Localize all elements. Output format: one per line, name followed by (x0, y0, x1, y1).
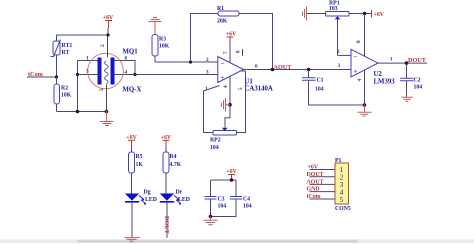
junction C1 (307, 68, 311, 72)
wire top rail (57, 34, 109, 36)
ground (under C2) (401, 97, 413, 101)
potentiometer RP2 (204, 71, 246, 151)
svg-text:C1: C1 (317, 78, 324, 84)
svg-text:2: 2 (100, 44, 106, 47)
ground (above R3, flipped) (149, 18, 162, 35)
resistor R5 (129, 152, 144, 194)
svg-text:5: 5 (238, 87, 244, 90)
svg-text:5: 5 (340, 195, 344, 204)
wire P1 pin4, net GND (307, 187, 336, 193)
pin 5 stub U1 (241, 70, 246, 72)
svg-text:+: + (354, 68, 358, 76)
svg-text:4: 4 (357, 79, 363, 82)
svg-text:6: 6 (125, 56, 128, 62)
svg-text:−: − (221, 60, 225, 68)
pin 8 wire U2 (356, 14, 365, 57)
svg-text:4: 4 (125, 70, 128, 76)
sensor MQ1 (86, 35, 141, 112)
power +6V (right of RP1) (372, 10, 385, 18)
capacitor C2 (400, 63, 422, 97)
pin 1 stub U1 (204, 86, 220, 133)
svg-text:LED: LED (178, 197, 190, 203)
wire R3 to U1 pin2 (155, 61, 218, 63)
svg-text:1: 1 (86, 56, 89, 62)
junction (405, 61, 409, 65)
svg-text:R3: R3 (159, 37, 166, 43)
wire U1 output (244, 69, 352, 71)
svg-text:2: 2 (337, 49, 340, 55)
wire bottom rail (57, 111, 107, 113)
ground (under Dg) (124, 238, 140, 242)
wire P1 pin1, net +6V (308, 165, 336, 171)
wire pin4 (115, 74, 136, 76)
LED Dg (125, 190, 157, 206)
svg-text:C4: C4 (243, 197, 250, 203)
junction (228, 103, 232, 107)
svg-text:Dg: Dg (144, 190, 151, 196)
junction (76, 73, 79, 76)
svg-text:LM393: LM393 (374, 79, 396, 86)
wire P1 pin2, net DOUT (307, 172, 336, 178)
resistor R2 (54, 77, 72, 112)
wire LED Dg to ground (131, 203, 133, 238)
svg-text:DOUT: DOUT (163, 216, 170, 235)
svg-text:CA3140A: CA3140A (245, 86, 273, 93)
svg-text:+6V: +6V (374, 12, 385, 18)
svg-text:1K: 1K (136, 162, 144, 168)
svg-text:4: 4 (223, 85, 229, 88)
svg-text:RP2: RP2 (210, 138, 221, 144)
thermistor RT1 (51, 35, 73, 77)
resistor R1 feedback (191, 6, 273, 70)
potentiometer RP1 (307, 1, 372, 56)
svg-text:DOUT: DOUT (408, 57, 427, 64)
power +6V (above R4) (161, 135, 172, 152)
junction (133, 73, 136, 76)
junction (76, 110, 80, 114)
svg-text:7: 7 (223, 51, 229, 54)
wire pin1 (78, 60, 98, 62)
wire U2 output DOUT (378, 62, 427, 64)
wire U2 pin2 (338, 54, 352, 56)
svg-text:5: 5 (99, 88, 105, 91)
svg-text:8: 8 (236, 50, 242, 53)
power +6V (U1 pin7) (226, 32, 237, 49)
resistor R3 (152, 35, 170, 63)
svg-text:MQ-X: MQ-X (123, 87, 142, 94)
svg-text:tCom: tCom (307, 194, 321, 200)
svg-text:+6V: +6V (308, 165, 319, 171)
wire LED Dr down, net DOUT (163, 203, 170, 238)
svg-text:RT1: RT1 (62, 43, 73, 49)
svg-text:C2: C2 (414, 78, 421, 84)
svg-text:3: 3 (206, 70, 209, 76)
junction (363, 103, 367, 107)
junction (189, 60, 192, 63)
bottom scrollbar band (0, 240, 474, 244)
op-amp U2 (351, 49, 395, 85)
svg-text:104: 104 (315, 87, 324, 93)
resistor R4 (163, 152, 182, 194)
wire P1 pin3, net AOUT (307, 179, 336, 185)
svg-text:LED: LED (145, 197, 157, 203)
svg-text:20K: 20K (217, 19, 228, 25)
connector P1 CON5 (335, 158, 351, 212)
svg-text:R5: R5 (136, 154, 143, 160)
svg-text:1: 1 (390, 57, 393, 63)
ground (left of RP1, rotated) (303, 7, 307, 21)
svg-text:1: 1 (205, 86, 208, 92)
svg-text:3: 3 (86, 69, 89, 75)
pin 4 wire U1 (223, 76, 230, 127)
wire sensor left pins vertical (77, 61, 79, 112)
svg-text:+: + (221, 74, 225, 82)
op-amp U1 (206, 57, 273, 93)
wire C3 C4 top rail (211, 180, 237, 197)
capacitor C4 (211, 197, 252, 217)
svg-text:10K: 10K (159, 44, 170, 50)
svg-text:GND: GND (307, 187, 320, 193)
ground (under U2 pin4) (358, 105, 372, 116)
svg-text:R4: R4 (170, 154, 177, 160)
svg-text:2: 2 (206, 57, 209, 63)
power +6V (above C3 C4) (226, 169, 237, 180)
capacitor C1 (302, 70, 365, 106)
junction (105, 110, 109, 114)
svg-text:Dr: Dr (176, 190, 183, 196)
node tCom (27, 71, 58, 79)
svg-text:CON5: CON5 (335, 206, 351, 212)
junction (230, 178, 234, 182)
svg-text:RT: RT (62, 50, 70, 56)
svg-text:AOUT: AOUT (274, 64, 293, 71)
svg-text:AOUT: AOUT (307, 179, 324, 185)
svg-text:10K: 10K (61, 93, 72, 99)
power +6V (top left) (103, 15, 114, 35)
svg-text:R1: R1 (217, 6, 224, 12)
svg-text:104: 104 (243, 204, 252, 210)
svg-text:MQ1: MQ1 (123, 49, 139, 56)
pin 8 stub U1 (236, 49, 243, 56)
svg-text:3: 3 (338, 63, 341, 69)
junction top (106, 33, 109, 36)
svg-text:104: 104 (210, 145, 219, 151)
svg-text:U2: U2 (374, 71, 383, 78)
capacitor C3 (205, 197, 227, 217)
ground (under C3) (204, 217, 218, 225)
junction (363, 12, 367, 16)
svg-text:−: − (354, 53, 358, 61)
ground (below MQ1) (100, 112, 114, 126)
svg-text:DOUT: DOUT (307, 172, 324, 178)
svg-text:103: 103 (329, 6, 338, 12)
svg-text:C3: C3 (218, 197, 225, 203)
junction feedback (271, 68, 275, 72)
svg-text:104: 104 (414, 85, 423, 91)
pin 7 stub U1 (223, 49, 230, 63)
svg-text:6: 6 (255, 64, 258, 70)
LED Dr (160, 190, 190, 206)
junction (209, 215, 213, 219)
wire sensor output to U1 pin3 (135, 74, 218, 76)
svg-text:4.7K: 4.7K (170, 162, 182, 168)
ground (left of U1 pin4, rotated) (222, 98, 231, 112)
svg-text:104: 104 (218, 204, 227, 210)
pin 4 wire U2 (357, 70, 365, 105)
svg-text:R2: R2 (61, 86, 68, 92)
svg-text:8: 8 (356, 40, 362, 43)
wire P1 pin5, net tCom (307, 194, 336, 200)
wire pin6 (115, 61, 136, 75)
wire pin3 (78, 74, 98, 76)
power +6V (above R5) (126, 135, 137, 152)
